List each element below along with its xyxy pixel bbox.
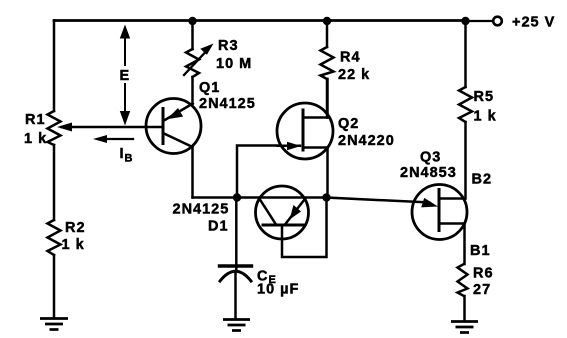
svg-text:10 M: 10 M [216,56,252,72]
svg-text:Q3: Q3 [420,150,441,166]
svg-text:+25 V: +25 V [512,15,555,31]
svg-text:2N4125: 2N4125 [173,202,230,218]
svg-text:B1: B1 [470,243,491,259]
svg-text:E: E [120,68,131,84]
svg-text:1 k: 1 k [474,109,497,125]
svg-text:27: 27 [473,282,491,298]
svg-text:Q1: Q1 [199,80,220,96]
svg-text:R6: R6 [473,266,494,282]
svg-text:2N4220: 2N4220 [338,133,395,149]
svg-text:R3: R3 [218,38,239,54]
svg-text:R5: R5 [474,89,495,105]
svg-text:1 k: 1 k [62,237,85,253]
svg-text:10 µF: 10 µF [257,282,299,298]
svg-text:B2: B2 [472,172,493,188]
svg-text:22 k: 22 k [338,67,370,83]
svg-text:R4: R4 [340,50,361,66]
svg-text:2N4125: 2N4125 [199,96,256,112]
svg-text:R1: R1 [25,112,46,128]
svg-text:1 k: 1 k [24,131,47,147]
svg-text:IB: IB [120,146,134,165]
svg-text:2N4853: 2N4853 [400,165,457,181]
svg-text:D1: D1 [208,219,229,235]
svg-text:Q2: Q2 [338,116,359,132]
svg-text:R2: R2 [65,220,86,236]
